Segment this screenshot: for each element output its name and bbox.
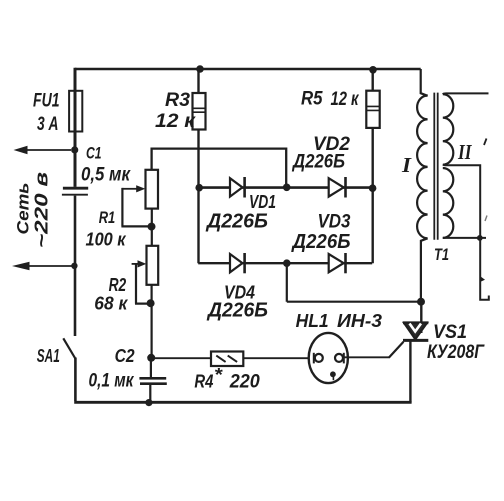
lamp HL1 right electrode bbox=[335, 354, 343, 362]
capacitor C2 bbox=[139, 377, 166, 380]
svg-text:С2: С2 bbox=[115, 346, 135, 366]
svg-text:Т1: Т1 bbox=[434, 245, 449, 264]
svg-text:Д226Б: Д226Б bbox=[205, 211, 268, 233]
wire VS1 cathode bbox=[409, 342, 411, 403]
svg-text:0,5 мк: 0,5 мк bbox=[81, 165, 131, 186]
diode VD1 bbox=[230, 178, 242, 196]
wire left bus upper bbox=[74, 68, 77, 187]
wire left bus lower bbox=[74, 358, 77, 402]
wire gate diagonal bbox=[389, 342, 403, 358]
resistor R5 bbox=[366, 91, 379, 128]
node C2 bottom bbox=[145, 399, 152, 406]
svg-text:Сеть: Сеть bbox=[14, 183, 33, 235]
lamp HL1 envelope bbox=[309, 333, 348, 383]
diode row 2 wire bbox=[198, 262, 372, 264]
wire top bus bbox=[75, 68, 421, 71]
svg-text:ИН-3: ИН-3 bbox=[337, 311, 382, 331]
svg-text:SA1: SA1 bbox=[37, 346, 60, 366]
wire C2 to R4 bbox=[151, 357, 211, 359]
svg-text:VS1: VS1 bbox=[433, 322, 467, 343]
svg-text:*: * bbox=[214, 365, 223, 385]
wire mains lead 1 bbox=[26, 149, 71, 151]
wire R5 top lead bbox=[372, 70, 374, 91]
svg-text:~220 в: ~220 в bbox=[32, 172, 52, 248]
svg-text:VD3: VD3 bbox=[318, 212, 351, 233]
node mid row2 bbox=[283, 259, 291, 267]
resistor R1 bbox=[146, 170, 159, 209]
wire R2 to C2 bbox=[151, 285, 153, 358]
wire mains lead 2 bbox=[28, 265, 72, 267]
wire R4 to HL1 bbox=[243, 357, 313, 359]
wire secondary tap lead bbox=[443, 165, 489, 300]
svg-text:HL1: HL1 bbox=[296, 311, 329, 331]
wire R1-R2 bbox=[151, 209, 153, 246]
wire HL1 to gate bbox=[344, 356, 390, 358]
mark apostrophe 2 bbox=[485, 216, 487, 222]
node R1 bottom bbox=[148, 223, 156, 231]
node C2 top bbox=[147, 354, 155, 362]
wire bottom bus bbox=[74, 401, 411, 404]
svg-text:I: I bbox=[401, 153, 412, 177]
switch SA1 blade bbox=[63, 338, 75, 358]
diode row 1 wire bbox=[199, 186, 373, 189]
node diode bus left bbox=[195, 184, 203, 192]
transformer T1 secondary upper winding bbox=[443, 94, 454, 165]
svg-text:12 к: 12 к bbox=[155, 111, 197, 132]
svg-text:КУ208Г: КУ208Г bbox=[427, 342, 485, 363]
svg-text:R1: R1 bbox=[99, 208, 116, 227]
lamp HL1 gas dot bbox=[330, 371, 336, 377]
wire secondary top lead bbox=[443, 92, 489, 95]
transformer T1 secondary lower winding bbox=[443, 168, 454, 238]
node tap cross bbox=[477, 235, 483, 241]
svg-text:С1: С1 bbox=[86, 144, 102, 163]
svg-text:3 А: 3 А bbox=[37, 114, 59, 135]
svg-text:220: 220 bbox=[229, 372, 260, 393]
wire R1 top loop bbox=[152, 149, 287, 187]
transformer T1 primary winding bbox=[417, 96, 427, 239]
mark tick bbox=[481, 277, 485, 282]
node anode junction bbox=[417, 298, 425, 306]
svg-text:Д226Б: Д226Б bbox=[291, 152, 345, 173]
node mains terminal 1 bbox=[71, 146, 78, 153]
transformer T1 primary lead top bbox=[421, 69, 428, 96]
transformer T1 primary lead bottom bbox=[421, 238, 428, 301]
wire left bus middle bbox=[74, 196, 77, 336]
svg-text:100 к: 100 к bbox=[86, 230, 127, 250]
svg-text:0,1 мк: 0,1 мк bbox=[89, 371, 135, 392]
svg-text:R3: R3 bbox=[165, 90, 190, 111]
wire left diode bus bbox=[197, 130, 199, 264]
svg-text:12 к: 12 к bbox=[331, 89, 360, 110]
svg-text:Д226Б: Д226Б bbox=[291, 231, 351, 253]
wire R3 top lead bbox=[197, 69, 199, 93]
wire secondary bottom lead bbox=[443, 237, 486, 239]
svg-text:R4: R4 bbox=[194, 372, 213, 392]
wire R2 wiper bbox=[132, 263, 139, 265]
node top-R3 bbox=[196, 65, 204, 73]
node mid row1 bbox=[283, 184, 291, 192]
diode VD4 bbox=[230, 254, 242, 272]
svg-text:VD1: VD1 bbox=[249, 192, 276, 212]
svg-text:R2: R2 bbox=[109, 275, 127, 295]
svg-text:Д226Б: Д226Б bbox=[206, 300, 268, 322]
lamp HL1 left electrode bbox=[313, 353, 315, 364]
capacitor C1 bbox=[63, 187, 88, 190]
svg-text:II: II bbox=[457, 140, 472, 164]
diode VD2 bbox=[329, 178, 344, 196]
node R2 bottom bbox=[147, 299, 155, 307]
node row1 right bbox=[369, 184, 377, 192]
svg-text:R5: R5 bbox=[301, 89, 323, 110]
mark apostrophe bbox=[484, 139, 487, 146]
svg-text:FU1: FU1 bbox=[33, 91, 60, 112]
svg-text:68 к: 68 к bbox=[94, 294, 128, 314]
resistor R3 bbox=[193, 93, 206, 130]
fuse FU1 bbox=[69, 91, 82, 132]
wire R1 wiper bbox=[122, 188, 137, 190]
wire right bus bbox=[372, 128, 374, 263]
resistor R4 bbox=[211, 352, 243, 367]
thyristor VS1 bbox=[420, 302, 422, 333]
node mains terminal 2 bbox=[71, 263, 77, 269]
transformer T1 core bbox=[434, 93, 437, 240]
wire bridge output bbox=[287, 263, 421, 302]
node top-R5 bbox=[369, 66, 377, 74]
resistor R2 bbox=[147, 246, 159, 285]
diode VD3 bbox=[329, 254, 344, 272]
